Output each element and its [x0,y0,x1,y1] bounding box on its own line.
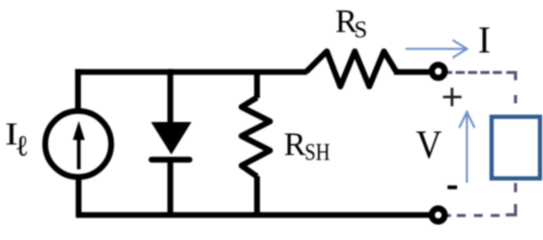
svg-text:S: S [354,18,367,44]
svg-text:SH: SH [305,140,331,166]
svg-text:V: V [416,122,442,167]
svg-text:ℓ: ℓ [15,131,29,163]
svg-text:I: I [478,20,491,62]
svg-text:R: R [284,127,306,163]
